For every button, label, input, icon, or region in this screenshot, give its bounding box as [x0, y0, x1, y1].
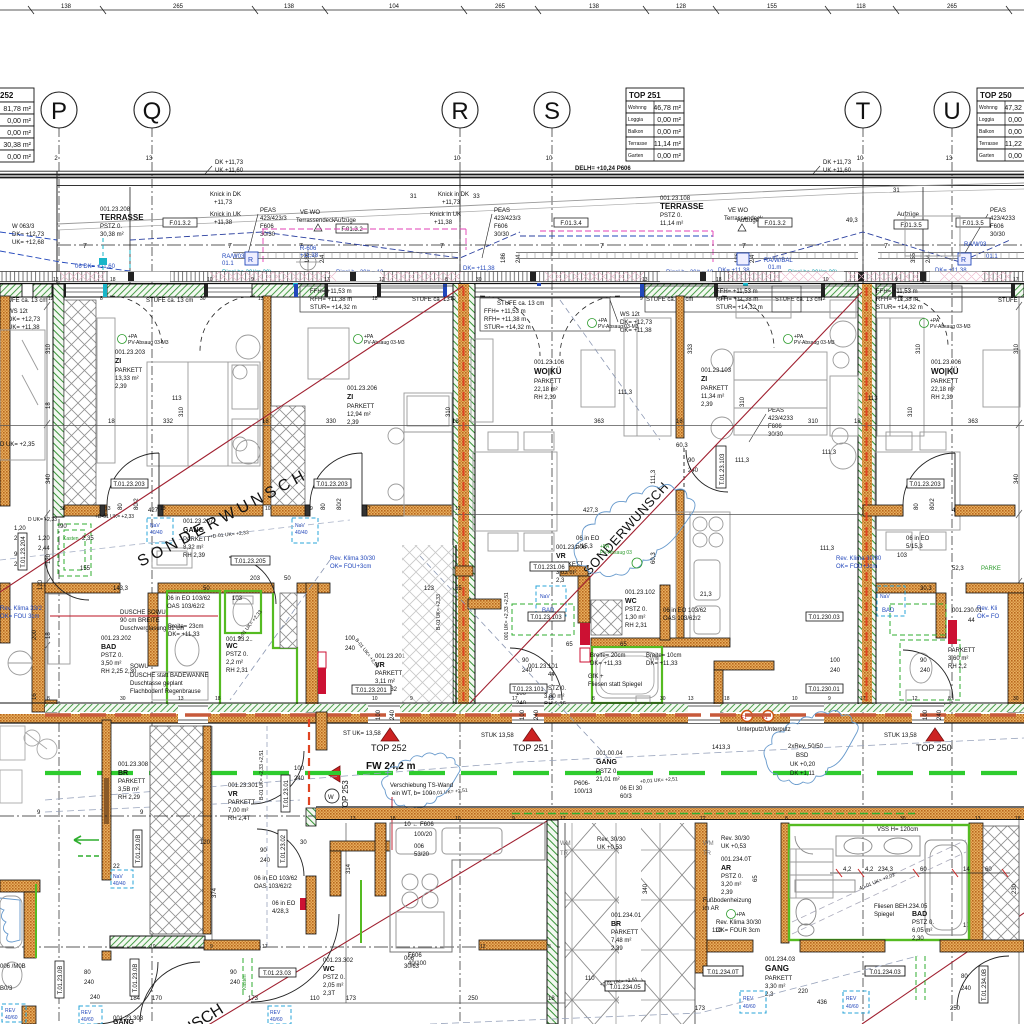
svg-text:PARKETT: PARKETT: [931, 379, 959, 385]
svg-text:1,20: 1,20: [38, 536, 50, 542]
svg-text:10: 10: [792, 696, 798, 702]
svg-text:310: 310: [808, 419, 819, 425]
svg-text:F606: F606: [990, 224, 1004, 230]
svg-text:001.230.01: 001.230.01: [952, 608, 983, 614]
svg-text:9: 9: [640, 296, 643, 302]
svg-text:B0/3: B0/3: [0, 986, 13, 992]
svg-text:100: 100: [830, 658, 841, 664]
svg-text:240: 240: [90, 995, 101, 1001]
svg-text:Rev. Klima 30/30: Rev. Klima 30/30: [836, 556, 882, 562]
svg-text:DUSCHE SOWU: DUSCHE SOWU: [120, 610, 166, 616]
svg-text:10: 10: [546, 156, 553, 162]
svg-text:DK +11,73: DK +11,73: [215, 160, 244, 166]
svg-text:PSTZ 0.: PSTZ 0.: [660, 213, 682, 219]
svg-text:STUR= +14,32 m: STUR= +14,32 m: [310, 305, 357, 311]
svg-text:9: 9: [410, 696, 413, 702]
svg-text:18: 18: [46, 402, 52, 409]
svg-text:REV: REV: [846, 996, 857, 1002]
svg-text:265: 265: [173, 4, 184, 10]
svg-text:TOP 251: TOP 251: [629, 91, 661, 100]
svg-text:PSTZ 0.: PSTZ 0.: [323, 975, 345, 981]
svg-text:340: 340: [1014, 473, 1020, 484]
svg-text:T.01.234.03: T.01.234.03: [869, 970, 901, 976]
svg-text:30: 30: [120, 696, 126, 702]
svg-text:16: 16: [32, 693, 38, 700]
svg-text:13: 13: [178, 696, 184, 702]
svg-text:12: 12: [480, 944, 486, 950]
svg-text:18: 18: [372, 296, 378, 302]
svg-text:PV-Absaug 03: PV-Absaug 03: [600, 550, 632, 556]
svg-text:90: 90: [230, 970, 237, 976]
svg-text:WC: WC: [226, 643, 238, 650]
svg-text:F.01.3.2: F.01.3.2: [764, 221, 786, 227]
svg-text:1,20: 1,20: [14, 526, 26, 532]
svg-text:01.m: 01.m: [768, 265, 781, 271]
svg-text:310: 310: [1014, 343, 1020, 354]
svg-text:17: 17: [365, 506, 371, 512]
svg-text:F.01.3.5: F.01.3.5: [900, 223, 922, 229]
svg-text:BAD: BAD: [101, 644, 116, 651]
svg-text:22: 22: [113, 864, 120, 870]
svg-text:2,39: 2,39: [347, 420, 359, 426]
svg-text:13: 13: [146, 156, 153, 162]
svg-text:250: 250: [468, 996, 479, 1002]
svg-text:40/60: 40/60: [846, 1004, 859, 1010]
svg-text:BR: BR: [118, 770, 128, 777]
svg-text:DK= +11,33: DK= +11,33: [646, 661, 678, 667]
svg-text:BSD: BSD: [796, 753, 809, 759]
svg-text:R: R: [451, 98, 468, 125]
svg-text:13,33 m²: 13,33 m²: [115, 376, 139, 382]
svg-text:+11,38: +11,38: [434, 220, 453, 226]
svg-text:52,3: 52,3: [952, 566, 964, 572]
svg-text:332: 332: [163, 419, 174, 425]
svg-text:STUK 13,58: STUK 13,58: [481, 733, 514, 739]
svg-text:31: 31: [893, 188, 900, 194]
svg-text:7: 7: [228, 243, 232, 250]
svg-text:P: P: [51, 98, 67, 125]
svg-text:2,3T: 2,3T: [323, 991, 335, 997]
svg-text:STUR= +14,32 m: STUR= +14,32 m: [484, 325, 531, 331]
svg-text:40/40: 40/40: [150, 530, 163, 536]
svg-text:WM: WM: [560, 841, 571, 847]
svg-text:60,3: 60,3: [676, 443, 688, 449]
svg-text:113: 113: [868, 396, 878, 402]
svg-text:40/60: 40/60: [81, 1017, 94, 1023]
svg-text:Rev. 30/30: Rev. 30/30: [721, 836, 750, 842]
svg-text:340: 340: [643, 883, 649, 894]
svg-text:0,00 m²: 0,00 m²: [7, 118, 31, 125]
svg-text:B-01 UK= +2,33 +2,51: B-01 UK= +2,33 +2,51: [259, 750, 265, 800]
svg-text:RH 2,4T: RH 2,4T: [228, 816, 251, 822]
svg-text:F.01.3.2: F.01.3.2: [169, 221, 191, 227]
svg-text:80: 80: [84, 970, 91, 976]
svg-text:RH 2,39: RH 2,39: [534, 395, 557, 401]
svg-text:13: 13: [350, 816, 356, 822]
svg-text:9: 9: [251, 277, 254, 283]
svg-text:138: 138: [61, 4, 72, 10]
svg-text:Garten: Garten: [628, 153, 644, 159]
svg-text:ein WT, b= 100: ein WT, b= 100: [392, 791, 433, 797]
svg-text:VSS H= 120cm: VSS H= 120cm: [877, 827, 918, 833]
svg-text:7: 7: [440, 243, 444, 250]
svg-text:+11,73: +11,73: [214, 200, 233, 206]
svg-text:234,3: 234,3: [878, 867, 894, 873]
svg-text:Fliesen statt Spiegel: Fliesen statt Spiegel: [588, 682, 642, 688]
svg-text:44: 44: [968, 618, 975, 624]
svg-text:2,39: 2,39: [115, 384, 127, 390]
svg-text:310: 310: [740, 396, 746, 407]
svg-text:13: 13: [975, 816, 981, 822]
svg-text:Spiegel: Spiegel: [874, 912, 894, 918]
svg-text:128: 128: [676, 4, 687, 10]
svg-text:STUFE ca. 13 cm: STUFE ca. 13 cm: [497, 301, 544, 307]
svg-text:NaV: NaV: [113, 874, 123, 880]
svg-text:PSTZ 0.: PSTZ 0.: [596, 769, 618, 775]
svg-text:10: 10: [265, 506, 271, 512]
svg-text:D UK= +2,35: D UK= +2,35: [0, 442, 35, 448]
svg-text:GANG: GANG: [596, 759, 618, 766]
svg-text:PEAS: PEAS: [990, 208, 1006, 214]
svg-text:T.01.23.201: T.01.23.201: [355, 688, 387, 694]
svg-text:173: 173: [695, 1006, 706, 1012]
svg-text:340: 340: [46, 473, 52, 484]
svg-text:FW 24,2 m: FW 24,2 m: [366, 761, 416, 772]
svg-text:Q: Q: [143, 98, 162, 125]
svg-text:RFH= +11,38 m: RFH= +11,38 m: [310, 297, 352, 303]
svg-text:ST UK= 13,58: ST UK= 13,58: [343, 731, 381, 737]
svg-text:11,14 m²: 11,14 m²: [660, 221, 683, 227]
svg-text:5/15,3: 5/15,3: [906, 544, 923, 550]
svg-text:006: 006: [414, 844, 425, 850]
svg-text:T.01.234.0B: T.01.234.0B: [982, 969, 988, 1001]
svg-text:13: 13: [105, 506, 111, 512]
svg-text:33: 33: [473, 194, 480, 200]
svg-text:2,39: 2,39: [701, 402, 713, 408]
svg-text:186: 186: [501, 252, 507, 263]
svg-text:W 063/3: W 063/3: [12, 224, 35, 230]
svg-text:7: 7: [884, 243, 888, 250]
svg-text:GANG: GANG: [765, 964, 789, 973]
svg-text:0,00 m²: 0,00 m²: [657, 117, 681, 124]
svg-text:60/3: 60/3: [620, 794, 632, 800]
svg-text:46,78 m²: 46,78 m²: [653, 105, 681, 112]
svg-text:Terrasse: Terrasse: [628, 141, 647, 147]
svg-text:310: 310: [916, 343, 922, 354]
svg-text:STUFE ca. 13 cm: STUFE ca. 13 cm: [646, 297, 693, 303]
svg-text:100: 100: [294, 766, 305, 772]
svg-text:123: 123: [424, 586, 435, 592]
svg-text:184: 184: [130, 996, 141, 1002]
svg-text:18: 18: [262, 419, 269, 425]
svg-text:4,2: 4,2: [865, 867, 874, 873]
svg-text:T.01.234.0T: T.01.234.0T: [707, 970, 739, 976]
svg-text:Breite= 10cm: Breite= 10cm: [646, 653, 682, 659]
svg-text:T.01.23.01: T.01.23.01: [284, 779, 290, 808]
svg-text:001.00.04: 001.00.04: [596, 751, 623, 757]
svg-text:T.01.23.103: T.01.23.103: [530, 615, 562, 621]
svg-text:10: 10: [372, 696, 378, 702]
svg-text:FFH= +11,53 m: FFH= +11,53 m: [716, 289, 758, 295]
svg-text:8: 8: [445, 277, 448, 283]
svg-text:REV: REV: [5, 1008, 16, 1014]
svg-text:PARKETT: PARKETT: [115, 368, 143, 374]
svg-text:363: 363: [968, 419, 979, 425]
svg-text:17: 17: [560, 816, 566, 822]
svg-text:NaV: NaV: [880, 594, 890, 600]
svg-text:110: 110: [585, 976, 595, 982]
svg-text:310: 310: [179, 406, 185, 417]
svg-text:17: 17: [720, 296, 726, 302]
svg-text:9: 9: [512, 816, 515, 822]
svg-text:111,3: 111,3: [820, 546, 835, 552]
svg-text:+11,73: +11,73: [442, 200, 461, 206]
svg-text:3,50 m²: 3,50 m²: [101, 661, 121, 667]
svg-text:53/20: 53/20: [414, 852, 430, 858]
svg-text:001 UK= +2,33 +2,51: 001 UK= +2,33 +2,51: [504, 592, 510, 640]
svg-text:ZI: ZI: [115, 358, 121, 365]
svg-text:12: 12: [379, 277, 385, 283]
svg-text:8: 8: [948, 696, 951, 702]
svg-text:VR: VR: [228, 791, 238, 798]
svg-text:110: 110: [310, 996, 320, 1002]
svg-text:8: 8: [785, 816, 788, 822]
svg-text:T.01.23.203: T.01.23.203: [113, 482, 145, 488]
svg-text:252: 252: [0, 91, 14, 100]
svg-text:65: 65: [620, 642, 627, 648]
svg-text:363: 363: [594, 419, 605, 425]
svg-text:18: 18: [46, 632, 52, 639]
svg-text:30,3: 30,3: [920, 586, 932, 592]
svg-text:001.23.101: 001.23.101: [528, 664, 559, 670]
svg-text:423/423/3: 423/423/3: [260, 216, 287, 222]
svg-text:TERRASSE: TERRASSE: [660, 202, 704, 211]
svg-text:80/2: 80/2: [930, 498, 936, 510]
svg-text:18: 18: [724, 696, 730, 702]
svg-text:TR: TR: [560, 851, 569, 857]
svg-text:STUR= +14,32 m: STUR= +14,32 m: [876, 305, 923, 311]
svg-text:18: 18: [110, 277, 116, 283]
svg-text:T.01.23.204: T.01.23.204: [21, 536, 27, 568]
svg-text:UK +11,60: UK +11,60: [215, 168, 244, 174]
svg-text:DK= +12,73: DK= +12,73: [12, 232, 45, 238]
svg-text:240: 240: [522, 668, 533, 674]
svg-text:138: 138: [589, 4, 600, 10]
svg-text:113: 113: [172, 396, 182, 402]
svg-text:PARKETT: PARKETT: [611, 930, 639, 936]
svg-text:Aufzüge: Aufzüge: [737, 218, 760, 224]
svg-text:4/28,3: 4/28,3: [272, 909, 289, 915]
svg-text:+PA: +PA: [736, 912, 746, 918]
svg-text:R: R: [961, 257, 966, 264]
svg-text:200: 200: [32, 629, 38, 640]
svg-text:WO|KÜ: WO|KÜ: [534, 367, 562, 376]
svg-text:10: 10: [450, 296, 456, 302]
svg-text:Breite= 20cm: Breite= 20cm: [590, 653, 626, 659]
svg-text:PV-Absaug 03-M3: PV-Absaug 03-M3: [930, 324, 971, 330]
svg-text:14: 14: [963, 867, 970, 873]
svg-text:T.01.23.0B: T.01.23.0B: [136, 835, 142, 864]
svg-text:Aufzüge: Aufzüge: [897, 212, 920, 218]
svg-text:40/60: 40/60: [743, 1004, 756, 1010]
svg-text:PSTZ 0.: PSTZ 0.: [625, 607, 647, 613]
svg-text:22,18 m²: 22,18 m²: [534, 387, 558, 393]
svg-text:RH 2,39: RH 2,39: [931, 395, 954, 401]
svg-text:DUSCHE statt BADEWANNE: DUSCHE statt BADEWANNE: [130, 673, 208, 679]
svg-text:TOP 251: TOP 251: [513, 743, 549, 753]
svg-text:Fußbodenheizung: Fußbodenheizung: [703, 898, 751, 904]
svg-text:13: 13: [946, 156, 953, 162]
svg-text:06 DK= +11,60: 06 DK= +11,60: [75, 264, 116, 270]
svg-text:T.01.23.203: T.01.23.203: [316, 482, 348, 488]
svg-text:U: U: [943, 98, 960, 125]
svg-text:Balkon: Balkon: [628, 129, 644, 135]
svg-text:PSTZ 0.: PSTZ 0.: [101, 653, 123, 659]
svg-text:2,44: 2,44: [38, 546, 50, 552]
svg-text:240: 240: [390, 709, 396, 720]
svg-text:06 in EO 103/62: 06 in EO 103/62: [167, 596, 211, 602]
svg-text:100/13: 100/13: [574, 789, 593, 795]
svg-text:PV-Absaug 03-M3: PV-Absaug 03-M3: [364, 340, 405, 346]
svg-text:100: 100: [376, 709, 382, 720]
svg-text:006 /M0B: 006 /M0B: [0, 964, 26, 970]
svg-text:F.01.3.2: F.01.3.2: [341, 227, 363, 233]
svg-text:001.23.006: 001.23.006: [931, 360, 962, 366]
svg-text:12: 12: [48, 296, 54, 302]
svg-text:PEAS: PEAS: [260, 208, 276, 214]
svg-text:T.01.23.103: T.01.23.103: [720, 453, 726, 485]
svg-text:Unterputz/Unterputz: Unterputz/Unterputz: [737, 727, 791, 733]
svg-text:265: 265: [495, 4, 506, 10]
svg-text:PARKETT: PARKETT: [228, 800, 256, 806]
svg-text:REV: REV: [81, 1010, 92, 1016]
svg-text:BR: BR: [611, 921, 621, 928]
svg-text:F.01.3.4: F.01.3.4: [560, 221, 582, 227]
svg-text:120: 120: [200, 840, 211, 846]
svg-text:173: 173: [248, 996, 259, 1002]
svg-text:REV: REV: [270, 1010, 281, 1016]
svg-text:T.01.23.101: T.01.23.101: [512, 687, 544, 693]
svg-text:Verschiebung TS-Wand: Verschiebung TS-Wand: [390, 783, 453, 789]
svg-text:WC: WC: [625, 598, 637, 605]
svg-text:PV-Absaug 03-M3: PV-Absaug 03-M3: [128, 340, 169, 346]
svg-text:310: 310: [908, 406, 914, 417]
svg-text:PARKETT: PARKETT: [701, 386, 729, 392]
svg-text:13: 13: [688, 696, 694, 702]
svg-text:40/100: 40/100: [408, 961, 427, 967]
svg-text:0,00 m²: 0,00 m²: [1008, 117, 1024, 124]
svg-text:240: 240: [920, 668, 931, 674]
svg-text:104: 104: [389, 4, 400, 10]
svg-text:10: 10: [857, 156, 864, 162]
svg-text:WM: WM: [703, 841, 714, 847]
svg-text:47,32 m²: 47,32 m²: [1004, 105, 1024, 112]
svg-text:001.23.201: 001.23.201: [375, 654, 406, 660]
svg-text:GfK +: GfK +: [588, 674, 604, 680]
svg-text:427,3: 427,3: [583, 508, 599, 514]
svg-text:17: 17: [262, 944, 268, 950]
svg-text:001.234.03: 001.234.03: [765, 957, 796, 963]
svg-text:DK= +12,73: DK= +12,73: [8, 317, 41, 323]
svg-text:001.23.102: 001.23.102: [625, 590, 656, 596]
svg-text:Knick in DK: Knick in DK: [210, 192, 241, 198]
svg-text:RA/W03: RA/W03: [222, 254, 245, 260]
svg-text:30: 30: [200, 296, 206, 302]
svg-text:RA/W/BAL: RA/W/BAL: [764, 258, 793, 264]
svg-text:2,3: 2,3: [556, 578, 565, 584]
svg-text:7: 7: [83, 243, 87, 250]
svg-text:3,30 m²: 3,30 m²: [765, 984, 785, 990]
svg-text:21,01 m²: 21,01 m²: [596, 777, 620, 783]
svg-text:12: 12: [548, 696, 554, 702]
svg-text:9: 9: [828, 696, 831, 702]
svg-text:Rev. 30/30: Rev. 30/30: [597, 837, 626, 843]
svg-text:18: 18: [716, 277, 722, 283]
svg-text:AR: AR: [721, 865, 731, 872]
svg-text:374: 374: [212, 887, 218, 898]
svg-text:12: 12: [820, 296, 826, 302]
svg-text:10: 10: [150, 944, 156, 950]
svg-text:18: 18: [390, 816, 396, 822]
svg-text:50: 50: [284, 576, 291, 582]
svg-text:2,2 m²: 2,2 m²: [226, 660, 243, 666]
svg-text:Wohnng: Wohnng: [979, 105, 998, 111]
svg-text:0,00 m²: 0,00 m²: [657, 129, 681, 136]
svg-text:F606: F606: [494, 224, 508, 230]
svg-text:17: 17: [1013, 277, 1019, 283]
svg-text:0,00 m²: 0,00 m²: [1008, 129, 1024, 136]
svg-text:+D-01 UK= +2,33: +D-01 UK= +2,33: [95, 514, 134, 520]
svg-text:PEAS: PEAS: [768, 408, 784, 414]
svg-text:06 in EO: 06 in EO: [576, 536, 600, 542]
svg-text:Balkon: Balkon: [979, 129, 995, 135]
svg-text:12: 12: [455, 506, 461, 512]
svg-text:TOP 250: TOP 250: [980, 91, 1012, 100]
svg-text:3,20 m²: 3,20 m²: [721, 882, 741, 888]
svg-text:UK +0,20: UK +0,20: [790, 762, 816, 768]
svg-text:240: 240: [534, 709, 540, 720]
svg-text:RH 2,31: RH 2,31: [625, 623, 648, 629]
svg-text:001.23.206: 001.23.206: [347, 386, 378, 392]
svg-text:001.23.106: 001.23.106: [534, 360, 565, 366]
svg-text:Knick in UK: Knick in UK: [430, 212, 461, 218]
svg-text:OK= FOUR 3cm: OK= FOUR 3cm: [716, 928, 760, 934]
svg-text:TOP 252: TOP 252: [371, 743, 407, 753]
svg-text:8: 8: [100, 296, 103, 302]
svg-text:01.1: 01.1: [222, 261, 234, 267]
svg-text:PSTZ 0.: PSTZ 0.: [912, 920, 934, 926]
svg-text:Loggia: Loggia: [979, 117, 994, 123]
svg-text:120: 120: [46, 553, 52, 564]
svg-text:2,30: 2,30: [912, 936, 924, 942]
svg-text:F606: F606: [768, 424, 782, 430]
svg-text:Terrassendeck: Terrassendeck: [296, 218, 336, 224]
svg-text:STUFE ca. 13 cm: STUFE ca. 13 cm: [146, 298, 193, 304]
svg-text:PARKETT: PARKETT: [375, 671, 403, 677]
svg-text:265: 265: [947, 4, 958, 10]
svg-text:240: 240: [961, 986, 972, 992]
svg-text:Knick in UK: Knick in UK: [210, 212, 241, 218]
svg-text:Flachbodenf Regenbrause: Flachbodenf Regenbrause: [130, 689, 201, 695]
svg-text:80: 80: [914, 503, 920, 510]
svg-text:Rev. Klima 30/30: Rev. Klima 30/30: [330, 556, 376, 562]
svg-text:2xRev. 50/50: 2xRev. 50/50: [788, 744, 824, 750]
svg-text:80: 80: [961, 974, 968, 980]
svg-text:250: 250: [950, 1006, 961, 1012]
svg-text:PARKE: PARKE: [981, 566, 1001, 572]
svg-text:173: 173: [346, 996, 357, 1002]
svg-text:Kasten: Kasten: [242, 974, 248, 990]
